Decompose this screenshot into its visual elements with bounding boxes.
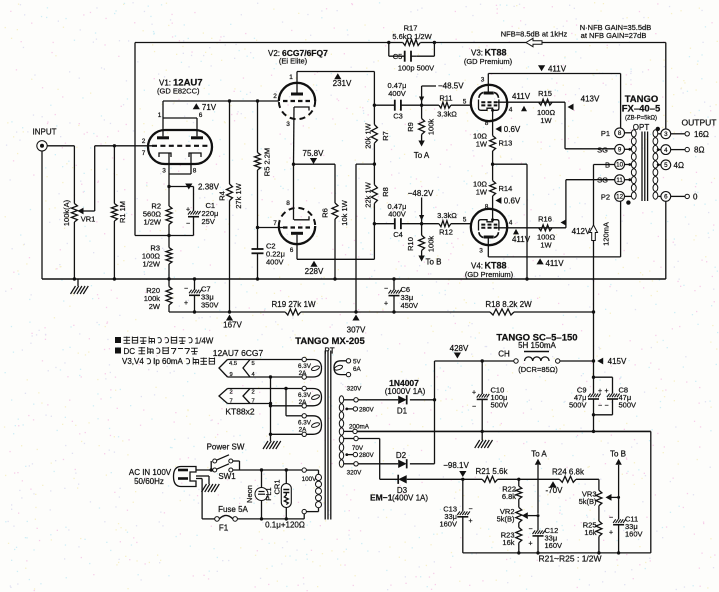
label C9 [577, 386, 587, 395]
wire winding3 bottom stub [271, 433, 303, 435]
node R13 R14 junction [491, 163, 494, 166]
wire OPT6 to ground bus [665, 201, 667, 279]
svg-text:at NFB GAIN=27dB: at NFB GAIN=27dB [581, 31, 647, 40]
wire 428V [435, 360, 514, 362]
label VR3 [582, 490, 597, 499]
connector 200mA [353, 429, 357, 433]
symbol NFB flow arrow [526, 38, 542, 46]
svg-text:5: 5 [463, 217, 467, 224]
node VR3 wiper T [617, 496, 620, 499]
svg-text:−: − [598, 403, 602, 410]
svg-text:0: 0 [693, 192, 698, 201]
label V3 pin3 [481, 77, 485, 84]
svg-text:Fuse 5A: Fuse 5A [218, 505, 248, 514]
label 5V [353, 359, 362, 366]
node C10 ground [481, 430, 484, 433]
wire VR2 wiper [522, 512, 538, 519]
svg-text:4: 4 [664, 147, 668, 154]
label C12 voltage [545, 541, 563, 550]
wire V1 cathodes join [169, 153, 191, 187]
wire heater branch drop [286, 389, 302, 416]
label C1 value [202, 209, 219, 218]
label R18 [485, 300, 532, 309]
label V3 pin5 [463, 99, 467, 106]
label D3 [397, 486, 408, 495]
svg-text:1W: 1W [540, 241, 552, 250]
svg-text:167V: 167V [223, 321, 242, 330]
wire heater wire C [228, 388, 303, 390]
label C11 [625, 515, 638, 524]
tube V1 grid dashes [152, 145, 208, 147]
node D1 junction [433, 398, 436, 401]
wire C12 lead [537, 516, 539, 531]
tube V4 plate [484, 236, 494, 239]
winding OPT secondary [653, 130, 658, 199]
svg-text:6.3V: 6.3V [298, 392, 312, 399]
terminal OPT 9 [615, 144, 625, 154]
label C1 plus [186, 207, 190, 214]
node C9 branch [592, 376, 595, 379]
node C9 ground [592, 430, 595, 433]
capacitor C9 [588, 394, 601, 432]
label C8 [619, 386, 629, 395]
label R11 [439, 94, 452, 103]
resistor R24 [560, 476, 599, 490]
node heater gnd 4 [269, 433, 272, 436]
svg-text:500V: 500V [491, 401, 509, 410]
marker 167V [223, 315, 242, 330]
wire V2b grid line [258, 227, 284, 229]
svg-text:SG: SG [597, 145, 608, 154]
label Power SW [207, 443, 245, 452]
label V1 sub [157, 87, 200, 96]
svg-text:1: 1 [289, 74, 293, 81]
svg-text:10: 10 [616, 162, 623, 169]
node R1 top [113, 144, 116, 147]
svg-text:280V: 280V [359, 452, 375, 459]
capacitor C4 [395, 218, 401, 229]
label V2a pin3 [286, 121, 290, 128]
wire C7 top [194, 279, 196, 290]
svg-text:6: 6 [664, 194, 668, 201]
wire input to VR1 [47, 146, 74, 204]
label R22 [502, 485, 516, 494]
label R14 value2 [476, 188, 488, 197]
svg-text:2: 2 [252, 390, 255, 396]
svg-text:+: + [186, 207, 190, 214]
svg-text:412V: 412V [572, 227, 591, 236]
wire 320V top tap [344, 399, 354, 401]
label 4ohm [674, 161, 684, 170]
svg-text:R16: R16 [538, 215, 552, 224]
label C3 value2 [388, 89, 406, 98]
svg-text:−48.2V: −48.2V [408, 189, 434, 198]
node R4 bottom 167V rail [228, 310, 231, 313]
label C13 plus [468, 518, 472, 525]
label V3 pin4 [509, 107, 513, 114]
heater V1V2 chevrons [219, 360, 250, 378]
label C10 value [491, 393, 508, 402]
label C9 plus [598, 388, 602, 395]
svg-text:CR1: CR1 [273, 479, 282, 494]
capacitor C12 [533, 530, 546, 553]
svg-text:+: + [472, 390, 476, 397]
resistor R2 [166, 187, 172, 236]
resistor R25 [596, 521, 602, 553]
resistor R16 [539, 225, 553, 231]
label C7 minus [184, 286, 188, 293]
symbol OPT phase dot 3 [656, 127, 660, 131]
svg-text:200mA: 200mA [349, 424, 370, 431]
svg-text:6.8k: 6.8k [502, 492, 516, 501]
label Neon [245, 485, 254, 503]
svg-text:OUTPUT: OUTPUT [682, 118, 717, 128]
label R15 [538, 89, 552, 98]
label R14 value1 [473, 180, 487, 189]
connector input jack [37, 141, 47, 151]
svg-text:0.6V: 0.6V [504, 125, 521, 134]
label C11 minus [609, 515, 613, 522]
svg-text:TANGO MX-205: TANGO MX-205 [295, 336, 365, 347]
label R17 [404, 24, 418, 33]
svg-text:1/4W: 1/4W [195, 337, 214, 346]
label R2 watt [143, 218, 161, 227]
svg-text:3.3kΩ: 3.3kΩ [437, 211, 457, 220]
node cathode return ground [525, 277, 528, 280]
svg-text:7: 7 [142, 150, 146, 157]
svg-text:2: 2 [142, 138, 146, 145]
resistor R17 [389, 40, 435, 46]
tube V3 beam plates [479, 92, 499, 97]
node C3 junction [373, 104, 376, 107]
node R5 top [256, 99, 259, 102]
label V3 pin8 [485, 120, 489, 127]
svg-text:411V: 411V [545, 259, 564, 268]
diode D1 [398, 395, 407, 404]
svg-text:D2: D2 [396, 451, 407, 460]
node C4 junction [373, 222, 376, 225]
tube V1 plate B [191, 136, 203, 139]
node R23 ground [517, 551, 520, 554]
svg-text:100V: 100V [302, 476, 318, 483]
node R9 junction [420, 104, 423, 107]
svg-text:8: 8 [618, 130, 622, 137]
svg-text:+: + [384, 301, 388, 308]
label kpin7b [252, 399, 255, 405]
label N-NFB gain [580, 23, 651, 32]
node R21 R22 [517, 478, 520, 481]
label V1 pin8 [193, 168, 197, 175]
svg-text:3: 3 [481, 77, 485, 84]
svg-text:428V: 428V [450, 344, 469, 353]
tube V2b cathode [294, 216, 309, 220]
svg-text:FX–40–5: FX–40–5 [622, 104, 661, 115]
svg-text:231V: 231V [333, 79, 352, 88]
label C12 [545, 526, 559, 535]
label C9 minus [598, 403, 602, 410]
node OPT tap10 [628, 163, 631, 166]
wire OPT secondary stubs [658, 134, 661, 197]
resistor R13 [490, 136, 496, 165]
svg-text:KT88x2: KT88x2 [225, 407, 255, 417]
capacitor C2 [252, 249, 264, 279]
svg-text:320V: 320V [347, 386, 363, 393]
svg-text:5: 5 [664, 162, 668, 169]
wire C6 top [393, 279, 395, 290]
label V4 pin8 [485, 204, 489, 211]
svg-text:75.8V: 75.8V [303, 149, 325, 158]
resistor R1 [111, 146, 117, 279]
svg-text:R24 6.8k: R24 6.8k [552, 467, 585, 476]
label R4 value [234, 182, 243, 208]
svg-text:KT88: KT88 [485, 48, 507, 58]
wire OPT primary stubs [625, 133, 632, 197]
label 5H 150mA [518, 341, 556, 350]
label V2 sub [279, 57, 308, 66]
node C6 bus [392, 277, 395, 280]
svg-text:2W: 2W [149, 302, 161, 311]
svg-text:5k(B): 5k(B) [497, 515, 515, 524]
label V4 pin4 [509, 220, 513, 227]
wire 280V tap B [345, 453, 353, 456]
svg-text:−: − [528, 526, 532, 533]
svg-text:C5: C5 [393, 52, 403, 61]
label V1 pin1 [158, 112, 162, 119]
resistor R12 [422, 221, 471, 227]
tube V4 cathode [479, 220, 499, 231]
wire heater wire A [228, 359, 303, 361]
node heater gnd 3 [269, 404, 272, 407]
label 100V pri [302, 476, 318, 483]
wire 320V bottom tap [344, 463, 354, 465]
wire 70V drop [358, 439, 380, 480]
label VR2 value [497, 515, 515, 524]
resistor R14 [490, 164, 496, 216]
connector 280V B [353, 452, 357, 456]
svg-text:450V: 450V [401, 301, 419, 310]
svg-text:R8: R8 [381, 187, 390, 197]
diode D2 [398, 459, 407, 468]
label C1 minus [186, 221, 190, 228]
resistor R6 [332, 203, 338, 279]
marker 231V [333, 73, 352, 88]
label R13 value1 [473, 132, 487, 141]
marker 412V [561, 219, 592, 236]
svg-text:2: 2 [273, 93, 277, 100]
label R2 [151, 202, 161, 211]
winding PT HV [339, 396, 343, 467]
wire D3 out [407, 478, 463, 480]
svg-text:6A: 6A [353, 366, 362, 373]
svg-text:V3,V4: V3,V4 [122, 357, 144, 366]
node C10 top [481, 359, 484, 362]
label C5 [393, 52, 403, 61]
resistor R23 [516, 527, 522, 553]
label C8 value [619, 393, 632, 402]
marker V3 411V [512, 92, 531, 111]
svg-text:160V: 160V [625, 530, 643, 539]
svg-text:411V: 411V [512, 92, 531, 101]
label pin5 [252, 361, 255, 367]
svg-text:(400V 1A): (400V 1A) [392, 494, 428, 503]
label C11 voltage [625, 530, 643, 539]
label R24 [552, 467, 585, 476]
label C1 [206, 201, 216, 210]
svg-text:+: + [468, 518, 472, 525]
label R3 value [142, 252, 161, 261]
connector choke left [514, 359, 518, 363]
svg-text:R21~R25 : 1/2W: R21~R25 : 1/2W [538, 554, 601, 564]
wire C10 top lead [481, 361, 483, 394]
wire input shield to ground bus [41, 151, 43, 279]
label C6 voltage [401, 301, 419, 310]
svg-text:SG: SG [597, 176, 608, 185]
potentiometer VR3 [596, 490, 602, 521]
wire C4 right [401, 223, 422, 225]
svg-text:3.3kΩ: 3.3kΩ [437, 110, 457, 119]
svg-text:5H 150mA: 5H 150mA [518, 341, 556, 350]
wire B tap drop [594, 165, 615, 313]
label R15 value [537, 108, 556, 117]
label C7 value [201, 293, 214, 302]
resistor R19 [285, 309, 301, 315]
wire NFB left drop [135, 43, 168, 236]
wire V2b plate drop [296, 235, 298, 259]
terminal OPT 6 [661, 192, 671, 202]
svg-text:P2: P2 [601, 192, 610, 201]
label 12AU7 6CG7 [213, 348, 264, 358]
wire D2 line [358, 463, 398, 465]
label 0ohm [693, 192, 698, 201]
svg-text:−: − [468, 506, 472, 513]
svg-text:−: − [184, 286, 188, 293]
node OPT tap5 [657, 163, 660, 166]
wire NFB right drop [665, 43, 667, 130]
label 120mA [602, 222, 611, 246]
wire plug ground stub [196, 476, 209, 484]
node C2 ground [256, 277, 259, 280]
label CH [498, 350, 510, 359]
label C4 [393, 230, 403, 239]
label V4 [471, 261, 507, 271]
label To B [425, 258, 441, 267]
symbol OPT phase dot P2 [626, 200, 630, 204]
resistor R9 [419, 105, 425, 140]
svg-text:Ip 60mA: Ip 60mA [153, 357, 183, 366]
label V4 sub [465, 270, 514, 279]
connector 320V top [354, 398, 358, 402]
wire PSU ground bus [357, 431, 651, 553]
svg-text:411V: 411V [512, 235, 531, 244]
svg-text:20k 1W: 20k 1W [364, 122, 373, 148]
wire V3 plate to P1 [488, 74, 620, 128]
label V1 pin3 [162, 168, 166, 175]
wire V3 cathode pin8 [491, 109, 494, 136]
label C4 value2 [388, 210, 406, 219]
svg-text:−: − [472, 404, 476, 411]
svg-text:6.3V: 6.3V [298, 363, 312, 370]
capacitor C13 [457, 511, 470, 553]
label R16 [538, 215, 552, 224]
marker V4 0.6V [495, 197, 520, 206]
svg-text:71V: 71V [202, 103, 217, 112]
svg-text:F1: F1 [219, 524, 229, 533]
label P1 [601, 129, 610, 138]
marker 307V [347, 315, 366, 335]
core OPT [642, 132, 648, 202]
svg-text:22k 1W: 22k 1W [364, 181, 373, 207]
label C6 [401, 285, 411, 294]
marker -48.5V leader [419, 82, 464, 106]
node R25 ground [597, 551, 600, 554]
wire V2a plate riser [296, 72, 298, 93]
label R6 [321, 208, 330, 218]
connector 70V [354, 436, 358, 440]
label R2 value [143, 210, 162, 219]
svg-text:(Ei Elite): (Ei Elite) [279, 57, 308, 66]
svg-text:0.6V: 0.6V [504, 197, 521, 206]
svg-text:160V: 160V [545, 541, 563, 550]
label 50/60Hz [134, 477, 164, 486]
label R5 [263, 148, 272, 176]
terminal OPT 10 [615, 160, 625, 170]
label at NFB gain [581, 31, 647, 40]
svg-text:228V: 228V [305, 267, 324, 276]
label R21 [475, 467, 508, 476]
label R9 value [427, 119, 436, 136]
wire R24 lead [519, 478, 560, 480]
wire V4 cathode pin8 [491, 216, 494, 221]
node C7 bottom [193, 310, 196, 313]
wire out 0ohm [671, 195, 685, 197]
label R16 watt [540, 241, 552, 250]
tube V2a envelope [279, 83, 315, 119]
label C8 plus [604, 388, 608, 395]
node C11 ground [617, 551, 620, 554]
label D2 [396, 451, 407, 460]
svg-text:+: + [598, 388, 602, 395]
label R3 watt [142, 260, 160, 269]
label D1 [397, 407, 408, 416]
svg-text:(ZB-P=5kΩ): (ZB-P=5kΩ) [625, 116, 657, 122]
node C6 bottom [392, 310, 395, 313]
wire To A arrow [418, 141, 424, 147]
wire D1 out [410, 399, 435, 401]
label VR2 [500, 507, 515, 516]
label PT [324, 347, 334, 356]
node R4 top [228, 99, 231, 102]
label NFB note [501, 30, 568, 39]
label 6A [353, 366, 362, 373]
label C10 voltage [491, 401, 509, 410]
svg-text:2A: 2A [299, 370, 308, 377]
label V2 [268, 48, 328, 58]
label TANGO OPT [625, 94, 659, 105]
resistor R18 [490, 309, 514, 315]
node R1 ground [113, 277, 116, 280]
node heater branch [284, 387, 287, 390]
svg-text:1/2W: 1/2W [142, 260, 160, 269]
label AC IN [129, 468, 172, 477]
svg-text:2A: 2A [299, 399, 308, 406]
svg-text:R1 1M: R1 1M [118, 201, 127, 223]
resistor R7 [371, 105, 377, 164]
svg-text:100p 500V: 100p 500V [398, 64, 434, 73]
wire B to 415V [593, 312, 595, 361]
label C10 plus [472, 390, 476, 397]
label R22 value [502, 492, 516, 501]
tube V2a plate [291, 93, 303, 96]
